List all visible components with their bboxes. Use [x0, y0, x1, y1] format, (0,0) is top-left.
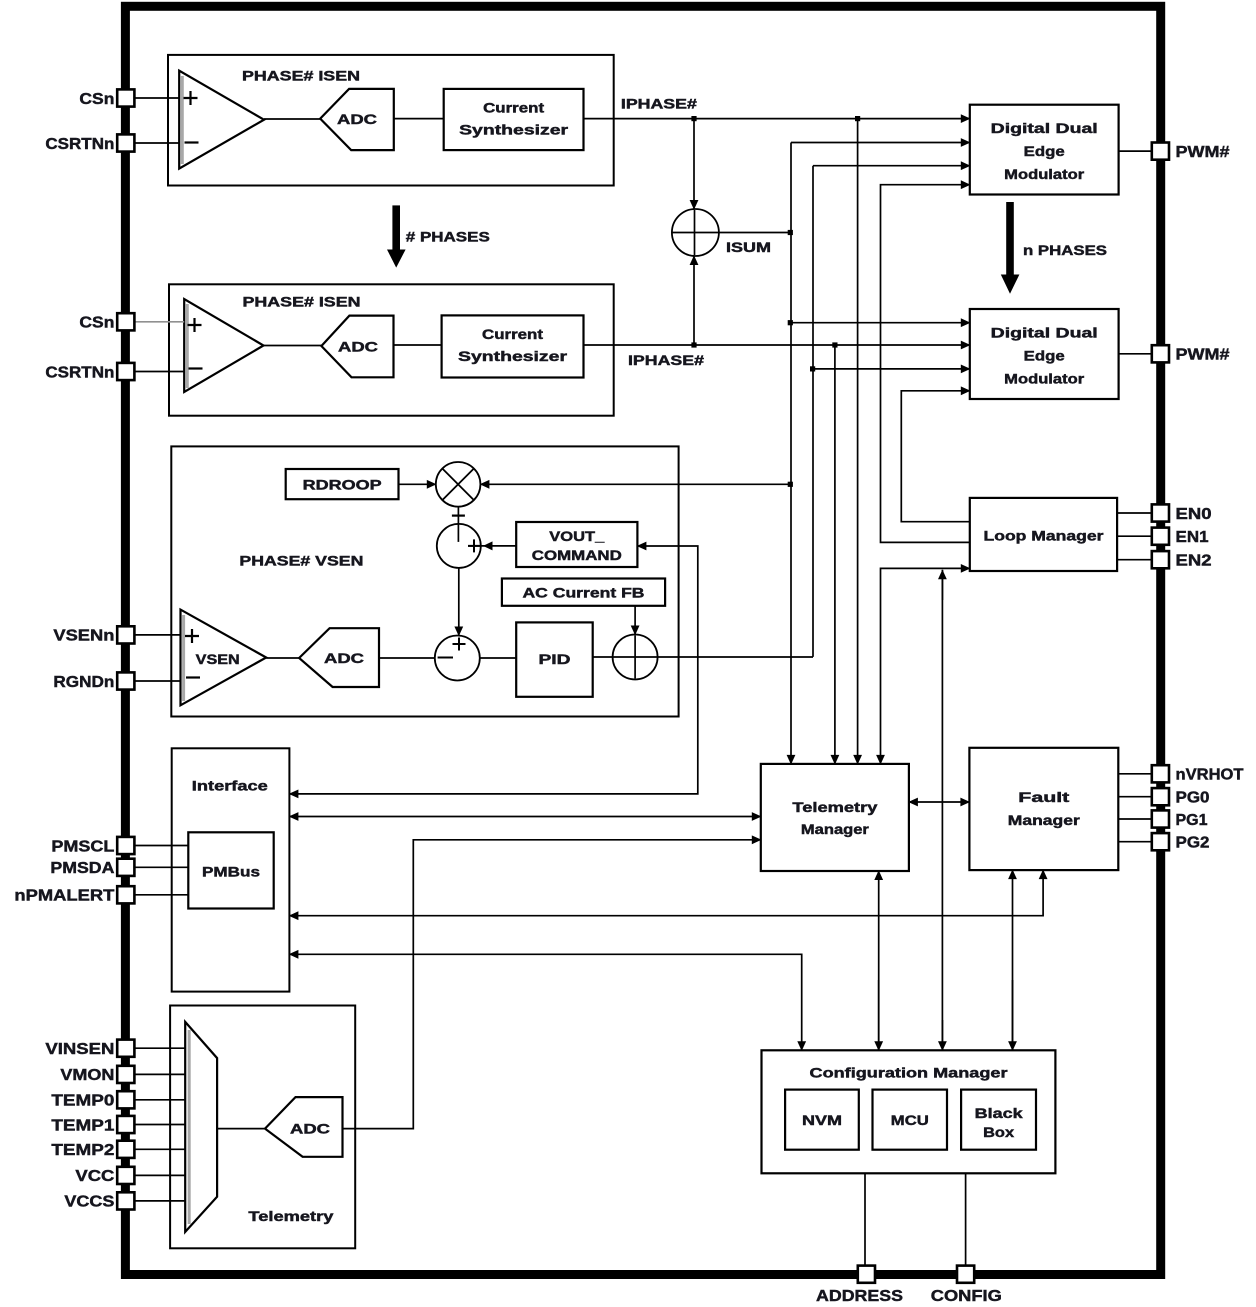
- wire into ISUM bottom: [693, 256, 695, 345]
- svg-text:NVM: NVM: [802, 1113, 842, 1128]
- summer2 minus sign: [438, 657, 453, 659]
- svg-text:Modulator: Modulator: [1004, 167, 1085, 182]
- wire multiplier right input: [480, 483, 791, 485]
- wire telemetry ADC to Telemetry Mgr: [343, 840, 761, 1129]
- svg-text:EN1: EN1: [1176, 529, 1209, 546]
- wire ISUM output: [718, 232, 790, 234]
- summer ISUM cross: [694, 210, 696, 255]
- pin VCC (left 14): [117, 1167, 134, 1184]
- wire FaultMgr to nVRHOT: [1118, 773, 1152, 775]
- summer3 circle: [613, 635, 658, 680]
- pin nPMALERT wire: [135, 894, 189, 896]
- svg-text:Current: Current: [483, 101, 545, 116]
- svg-text:nVRHOT: nVRHOT: [1176, 767, 1244, 784]
- svg-text:MCU: MCU: [891, 1113, 929, 1128]
- pin PMSDA wire: [135, 866, 189, 868]
- pin TEMP2 wire: [135, 1148, 186, 1150]
- svg-text:VOUT_: VOUT_: [549, 529, 605, 544]
- wire TelemetryMgr-ConfigMgr: [878, 871, 880, 1050]
- svg-text:CSn: CSn: [79, 91, 114, 108]
- svg-text:VMON: VMON: [60, 1067, 114, 1084]
- summer1 circle: [437, 524, 481, 568]
- svg-text:Synthesizer: Synthesizer: [459, 123, 569, 138]
- svg-text:COMMAND: COMMAND: [532, 548, 622, 563]
- svg-text:PWM#: PWM#: [1176, 144, 1230, 161]
- pin TEMP1 wire: [135, 1124, 186, 1126]
- svg-text:# PHASES: # PHASES: [406, 229, 490, 244]
- op-amp A1: [179, 71, 264, 169]
- svg-text:AC Current FB: AC Current FB: [523, 586, 645, 601]
- svg-text:PWM#: PWM#: [1176, 347, 1230, 364]
- svg-text:TEMP2: TEMP2: [51, 1142, 114, 1159]
- svg-text:CSn: CSn: [79, 315, 114, 332]
- svg-text:Modulator: Modulator: [1004, 372, 1085, 387]
- wire ADC3 to summer2: [379, 657, 435, 659]
- pin EN2 (right 4): [1152, 551, 1169, 568]
- junction V791-ISUM out: [788, 230, 793, 235]
- svg-text:PG2: PG2: [1176, 835, 1210, 852]
- wire into ISUM top: [693, 119, 695, 209]
- block Digital Dual Edge Modulator 1: [970, 105, 1119, 195]
- svg-text:ADDRESS: ADDRESS: [816, 1288, 903, 1305]
- svg-text:PMSCL: PMSCL: [51, 838, 114, 855]
- pin PG1 (right 7): [1152, 810, 1169, 827]
- wire FaultMgr to PG1: [1118, 818, 1152, 820]
- pin CSn 1 wire: [135, 97, 180, 99]
- wire bus V880 lower to telemetry mgr: [881, 568, 970, 764]
- op-amp VSEN plus sign: [185, 629, 199, 643]
- wire summer1 to summer2: [458, 568, 460, 636]
- box MCU: [873, 1090, 948, 1150]
- wire bus V813 to modulator1 in3: [813, 165, 970, 167]
- pin VSENn wire: [135, 634, 181, 636]
- svg-text:ADC: ADC: [324, 651, 364, 666]
- pin VMON wire: [135, 1073, 186, 1075]
- thick arrow # PHASES: [392, 205, 400, 250]
- pin VCCS wire: [135, 1200, 186, 1202]
- svg-text:ADC: ADC: [338, 340, 378, 355]
- svg-text:PHASE# VSEN: PHASE# VSEN: [239, 554, 363, 569]
- box Current Synthesizer 1: [444, 89, 584, 150]
- block PHASE# VSEN outline: [171, 446, 678, 716]
- pin PMSCL (left 6): [117, 837, 134, 854]
- wire mux to ADC4: [217, 1128, 265, 1130]
- junction V791-mod2 branch: [788, 320, 793, 325]
- svg-text:Current: Current: [482, 327, 544, 342]
- wire bus V791 to modulator2 in1: [791, 322, 970, 324]
- pin CSn 2 wire (gray): [135, 321, 185, 323]
- svg-text:VSENn: VSENn: [53, 628, 114, 645]
- wire bus V835 to telemetry mgr: [834, 345, 836, 764]
- block Telemetry Manager: [761, 764, 909, 871]
- wire VSEN opamp to ADC3: [266, 657, 299, 659]
- pin CSRTNn 1 wire: [135, 142, 180, 144]
- op-amp A2: [184, 299, 263, 392]
- wire V942 arrows: [941, 570, 943, 600]
- svg-text:Manager: Manager: [801, 822, 870, 837]
- junction V791-multiplier branch: [788, 482, 793, 487]
- op-amp A2 plus sign: [188, 318, 202, 332]
- box PMBus: [188, 832, 273, 908]
- svg-text:CSRTNn: CSRTNn: [45, 136, 114, 153]
- block Loop Manager: [970, 498, 1117, 571]
- ADC A4 pentagon: [265, 1097, 343, 1157]
- wire bus V901: [901, 391, 970, 522]
- pin TEMP0 wire: [135, 1099, 186, 1101]
- pin PG0 (right 6): [1152, 788, 1169, 805]
- op-amp A2 gray shade: [186, 304, 189, 388]
- pin PWM# (right 0): [1152, 143, 1169, 160]
- summer2 circle: [435, 636, 480, 681]
- mux trapezoid: [185, 1022, 217, 1232]
- wire bus V791 to modulator1 in2: [791, 142, 970, 144]
- box RDROOP: [286, 469, 399, 499]
- wire TelemetryMgr-FaultMgr: [909, 801, 970, 803]
- svg-text:Box: Box: [983, 1125, 1015, 1140]
- svg-text:ISUM: ISUM: [726, 240, 771, 255]
- svg-text:Black: Black: [975, 1106, 1024, 1121]
- svg-text:Interface: Interface: [192, 779, 269, 794]
- wire ADC1 to synthesizer1: [394, 118, 444, 120]
- wire FaultMgr to PG0: [1118, 796, 1152, 798]
- svg-text:nPMALERT: nPMALERT: [14, 888, 114, 905]
- svg-text:Telemetry: Telemetry: [792, 800, 878, 815]
- svg-text:PMBus: PMBus: [202, 865, 260, 880]
- pin PWM# (right 1): [1152, 345, 1169, 362]
- op-amp VSEN minus sign: [186, 676, 200, 678]
- wire bus V813 to modulator2 in3: [813, 368, 970, 370]
- plus sign on summer1 top input: [452, 514, 465, 516]
- pin CSn (left 0): [117, 89, 134, 106]
- svg-text:Edge: Edge: [1024, 349, 1066, 364]
- pin EN1 (right 3): [1152, 528, 1169, 545]
- wire Interface to ConfigMgr: [289, 954, 801, 1050]
- ADC A3 pentagon: [299, 628, 379, 687]
- box VOUT_COMMAND: [516, 522, 637, 567]
- chip outer border: [125, 6, 1160, 1274]
- wire opamp1 to ADC1: [264, 118, 320, 120]
- wire multiplier to summer1: [457, 507, 459, 542]
- pin PMSDA (left 7): [117, 859, 134, 876]
- wire opamp2 to ADC2: [264, 345, 322, 347]
- wire Loop Mgr to EN2: [1117, 559, 1152, 561]
- wire VOUT_COMMAND feed: [289, 546, 697, 794]
- svg-text:Loop Manager: Loop Manager: [984, 529, 1105, 544]
- pin EN0 (right 2): [1152, 504, 1169, 521]
- wire AC Current FB to summer3: [634, 606, 636, 635]
- wire FaultMgr to PG2: [1118, 841, 1152, 843]
- pin VCC wire: [135, 1174, 186, 1176]
- junction V813-mod2 branch: [810, 366, 815, 371]
- wire bus V880 upper: [881, 185, 970, 543]
- pin CSRTNn (left 3): [117, 363, 134, 380]
- svg-text:IPHASE#: IPHASE#: [628, 353, 705, 368]
- wire Interface-Telemetry Mgr: [289, 816, 760, 818]
- op-amp A1 minus sign: [185, 141, 199, 143]
- svg-text:PID: PID: [539, 652, 571, 667]
- wire ADC2 to synthesizer2: [394, 344, 442, 346]
- box AC Current FB: [502, 579, 665, 606]
- arrowhead into summer1: [483, 541, 493, 550]
- svg-text:ADC: ADC: [290, 1122, 330, 1137]
- pin TEMP0 (left 11): [117, 1091, 134, 1108]
- ADC A2 pentagon: [321, 316, 393, 378]
- op-amp VSEN triangle: [181, 610, 267, 706]
- pin nPMALERT (left 8): [117, 886, 134, 903]
- svg-text:Configuration Manager: Configuration Manager: [810, 1066, 1009, 1081]
- box PID: [516, 622, 593, 696]
- svg-text:TEMP0: TEMP0: [51, 1093, 114, 1110]
- svg-text:Digital Dual: Digital Dual: [991, 326, 1098, 341]
- svg-text:Edge: Edge: [1024, 144, 1066, 159]
- svg-text:Synthesizer: Synthesizer: [458, 349, 568, 364]
- summer2 plus sign: [453, 638, 466, 651]
- svg-text:PHASE# ISEN: PHASE# ISEN: [242, 69, 360, 84]
- wire bus V813: [812, 166, 814, 657]
- svg-text:VCCS: VCCS: [64, 1194, 114, 1211]
- multiplier X mark: [442, 469, 474, 501]
- wire IPHASE#1 to modulator 1: [584, 118, 970, 120]
- box Current Synthesizer 2: [442, 315, 584, 377]
- pin VSENn (left 4): [117, 626, 134, 643]
- block PHASE# ISEN 1 outline: [168, 55, 614, 186]
- wire bus V791: [790, 143, 792, 764]
- block Fault Manager: [969, 748, 1118, 870]
- wire RDROOP to multiplier: [399, 483, 436, 485]
- svg-text:Telemetry: Telemetry: [248, 1209, 334, 1224]
- pin VCCS (left 15): [117, 1192, 134, 1209]
- svg-text:ADC: ADC: [337, 112, 377, 127]
- svg-text:CSRTNn: CSRTNn: [45, 364, 114, 381]
- block Configuration Manager: [762, 1050, 1056, 1173]
- wire loop mgr in3 up-arrow: [941, 570, 943, 1051]
- pin CSRTNn (left 1): [117, 134, 134, 151]
- wire ConfigMgr to ADDRESS pin: [864, 1173, 866, 1266]
- op-amp A2 minus sign: [189, 367, 203, 369]
- block Digital Dual Edge Modulator 2: [970, 309, 1119, 399]
- box Black Box: [961, 1090, 1036, 1150]
- svg-text:PG1: PG1: [1176, 812, 1208, 829]
- op-amp A1 plus sign: [184, 91, 198, 105]
- svg-text:RDROOP: RDROOP: [303, 478, 382, 493]
- wire Loop Mgr to EN1: [1117, 535, 1152, 537]
- pin RGNDn wire: [135, 680, 181, 682]
- pin CONFIG: [957, 1266, 974, 1283]
- pin PMSCL wire: [135, 845, 189, 847]
- pin RGNDn (left 5): [117, 672, 134, 689]
- thick arrow n PHASES: [1006, 202, 1014, 275]
- wire FaultMgr to Interface: [289, 870, 1043, 916]
- svg-text:VINSEN: VINSEN: [45, 1041, 114, 1058]
- svg-text:EN2: EN2: [1176, 553, 1212, 570]
- wire IPHASE#2 to modulator 2: [584, 344, 970, 346]
- svg-text:IPHASE#: IPHASE#: [621, 97, 698, 112]
- pin VINSEN wire: [135, 1047, 186, 1049]
- pin CSn (left 2): [117, 313, 134, 330]
- block Interface outline: [172, 748, 290, 991]
- pin nVRHOT (right 5): [1152, 765, 1169, 782]
- op-amp VSEN gray shade: [182, 615, 185, 701]
- wire ConfigMgr to CONFIG pin: [965, 1173, 967, 1266]
- svg-text:EN0: EN0: [1176, 506, 1212, 523]
- svg-text:PG0: PG0: [1176, 790, 1210, 807]
- svg-text:VCC: VCC: [75, 1168, 115, 1185]
- wire summer2 to PID: [480, 657, 516, 659]
- svg-text:VSEN: VSEN: [196, 652, 240, 667]
- svg-text:Manager: Manager: [1008, 813, 1081, 828]
- svg-text:CONFIG: CONFIG: [931, 1288, 1002, 1305]
- pin CSRTNn 2 wire: [135, 371, 185, 373]
- wire modulator2 to PWM#: [1119, 353, 1153, 355]
- svg-text:PHASE# ISEN: PHASE# ISEN: [243, 295, 361, 310]
- svg-text:Digital Dual: Digital Dual: [991, 121, 1098, 136]
- wire bus V857 to telemetry mgr: [857, 119, 859, 764]
- junction IPHASE2-V835: [832, 342, 837, 347]
- block PHASE# ISEN 2 outline: [169, 284, 614, 415]
- pin PG2 (right 8): [1152, 833, 1169, 850]
- svg-text:RGNDn: RGNDn: [53, 674, 114, 691]
- pin TEMP2 (left 13): [117, 1141, 134, 1158]
- mux gray shade: [188, 1030, 191, 1224]
- pin TEMP1 (left 12): [117, 1116, 134, 1133]
- wire Loop Mgr to EN0: [1117, 512, 1152, 514]
- block Telemetry outline: [170, 1006, 355, 1249]
- svg-text:PMSDA: PMSDA: [50, 860, 114, 877]
- pin VINSEN (left 9): [117, 1040, 134, 1057]
- wire modulator1 to PWM#: [1119, 150, 1153, 152]
- junction IPHASE1-ISUM: [691, 116, 696, 121]
- summer1 right input plus: [468, 539, 481, 552]
- wire VOUT_COMMAND to summer1: [468, 545, 516, 547]
- junction IPHASE2-ISUM: [691, 342, 696, 347]
- pin VMON (left 10): [117, 1066, 134, 1083]
- svg-text:n PHASES: n PHASES: [1023, 243, 1107, 258]
- wire FaultMgr-ConfigMgr: [1012, 870, 1014, 1050]
- box NVM: [785, 1090, 859, 1150]
- ADC A1 pentagon: [320, 89, 394, 150]
- summer ISUM circle: [672, 209, 719, 256]
- junction IPHASE1-V857: [855, 116, 860, 121]
- svg-text:Fault: Fault: [1018, 790, 1070, 805]
- op-amp A1 gray shade: [181, 76, 184, 164]
- wire PID through summer3: [593, 656, 813, 658]
- multiplier circle: [436, 462, 481, 507]
- pin ADDRESS: [858, 1266, 875, 1283]
- summer3 vertical cross: [634, 636, 636, 679]
- svg-text:TEMP1: TEMP1: [51, 1117, 114, 1134]
